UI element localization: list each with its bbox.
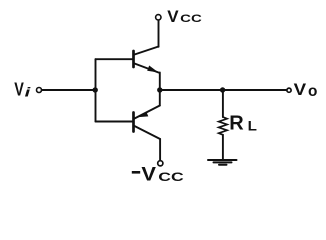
wire RL top — [222, 90, 224, 117]
junction RL — [220, 87, 225, 92]
wire base bus — [95, 59, 97, 121]
svg-text:o: o — [308, 83, 317, 100]
wire Q2 emitter — [159, 90, 161, 106]
label VCC — [167, 7, 202, 26]
svg-text:L: L — [248, 117, 258, 133]
junction output node — [157, 87, 162, 92]
svg-text:V: V — [14, 79, 24, 99]
svg-text:CC: CC — [180, 13, 202, 25]
terminal -VCC — [158, 161, 163, 166]
svg-text:V: V — [167, 7, 179, 26]
junction base bus — [93, 87, 98, 92]
transistor Q1 — [134, 47, 159, 73]
wire Q2 base — [96, 121, 133, 123]
svg-text:V: V — [141, 164, 156, 185]
label RL — [229, 113, 257, 135]
wire Q2 collector — [159, 139, 161, 160]
label Vo — [294, 80, 318, 100]
label -VCC — [132, 164, 184, 185]
svg-text:i: i — [25, 85, 31, 100]
wire Q1 emitter — [159, 73, 161, 91]
wire input — [42, 89, 96, 91]
svg-text:R: R — [229, 113, 244, 135]
wire Q1 collector — [158, 21, 160, 47]
resistor RL — [219, 117, 227, 135]
label Vi — [14, 79, 31, 99]
wire output — [160, 89, 286, 91]
wire Q1 base — [96, 58, 133, 60]
transistor Q2 — [134, 106, 161, 140]
terminal VCC — [156, 15, 161, 20]
terminal Vi — [37, 88, 42, 93]
wire RL bottom — [222, 135, 224, 159]
ground — [208, 160, 237, 165]
svg-text:CC: CC — [158, 170, 184, 184]
svg-text:V: V — [294, 80, 307, 99]
terminal Vo — [287, 88, 291, 92]
